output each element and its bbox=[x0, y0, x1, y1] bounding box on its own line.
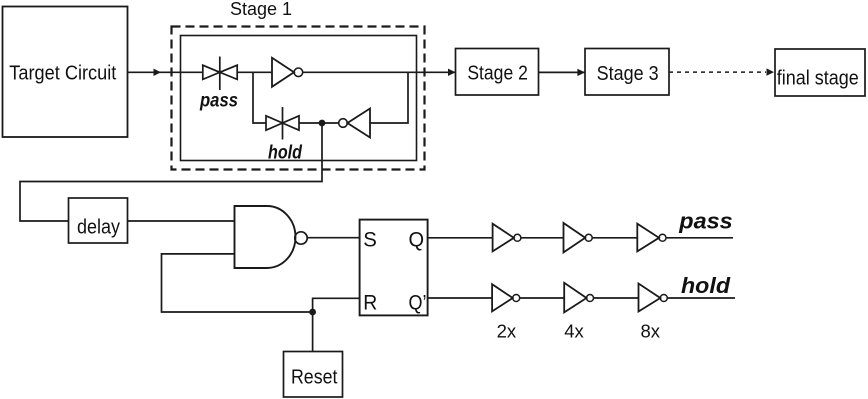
wire pass gate to inverter bbox=[237, 71, 272, 73]
transmission gate pass bbox=[203, 57, 237, 91]
box final stage bbox=[775, 49, 865, 96]
arrowhead into final stage bbox=[767, 68, 775, 75]
wire from Target Circuit into Stage 1 bbox=[127, 71, 203, 73]
svg-text:Stage 3: Stage 3 bbox=[597, 63, 659, 85]
svg-text:delay: delay bbox=[77, 217, 120, 239]
arrowhead on input wire bbox=[154, 69, 162, 76]
svg-text:R: R bbox=[363, 290, 377, 314]
wire delay to NAND input 1 bbox=[128, 220, 235, 222]
box Stage 2 bbox=[456, 49, 539, 96]
inverter U1 bbox=[272, 58, 303, 87]
wire X4 to X5 bbox=[520, 297, 565, 299]
dashed wire Stage 3 to final stage bbox=[669, 71, 766, 73]
inverter U2 (feedback, points left) bbox=[339, 109, 370, 138]
svg-text:pass: pass bbox=[199, 90, 238, 111]
inverter X5 (hold row, 4x) bbox=[564, 283, 593, 313]
wire node B to Reset bbox=[312, 312, 314, 351]
wire node A to inverter U2 bubble bbox=[322, 122, 339, 124]
wire X5 to X6 bbox=[594, 297, 639, 299]
wire Q to driver chain bbox=[428, 237, 493, 239]
svg-text:Q: Q bbox=[409, 228, 425, 252]
node B junction dot on R net bbox=[309, 309, 316, 316]
svg-text:Stage 1: Stage 1 bbox=[230, 0, 292, 19]
svg-text:hold: hold bbox=[681, 273, 731, 298]
svg-text:final stage: final stage bbox=[777, 68, 859, 90]
box Stage 3 bbox=[585, 49, 669, 96]
svg-text:Q’: Q’ bbox=[409, 290, 427, 314]
wire Q' to driver chain bbox=[428, 297, 493, 299]
wire hold gate to node A bbox=[299, 122, 322, 124]
SR latch U4 bbox=[360, 220, 428, 316]
wire Stage 2 to Stage 3 bbox=[539, 71, 585, 73]
svg-text:4x: 4x bbox=[564, 320, 584, 341]
box Reset bbox=[284, 352, 343, 398]
inverter X1 (pass row, 2x) bbox=[493, 224, 521, 252]
svg-text:Reset: Reset bbox=[291, 367, 338, 389]
box Target Circuit bbox=[3, 7, 128, 138]
svg-text:8x: 8x bbox=[641, 320, 661, 341]
wire X1 to X2 bbox=[521, 237, 564, 239]
wire NAND output to S bbox=[307, 237, 360, 239]
wire branch down to hold gate bbox=[253, 72, 266, 123]
wire U1 output to Stage 2 bbox=[303, 71, 455, 73]
feedback wire from main line to U2 input bbox=[370, 72, 408, 123]
svg-text:hold: hold bbox=[268, 143, 302, 164]
svg-text:Stage 2: Stage 2 bbox=[467, 63, 528, 85]
wire NAND input 2 from R net bbox=[162, 254, 313, 312]
svg-text:pass: pass bbox=[678, 209, 733, 234]
dashed outer box of Stage 1 bbox=[172, 27, 425, 170]
arrowhead into Stage 3 bbox=[577, 69, 585, 76]
box delay bbox=[69, 198, 128, 243]
svg-text:S: S bbox=[363, 228, 377, 252]
transmission gate hold bbox=[266, 107, 299, 140]
inverter X4 (hold row, 2x) bbox=[492, 284, 520, 311]
wire R input net bbox=[313, 298, 360, 312]
svg-text:2x: 2x bbox=[497, 320, 517, 341]
inverter X2 (pass row, 4x) bbox=[564, 223, 593, 252]
wire hold output bbox=[667, 297, 735, 299]
node A junction dot bbox=[319, 120, 326, 127]
inner box of Stage 1 bbox=[181, 36, 417, 161]
wire node A down and to delay bbox=[20, 123, 322, 221]
nand gate U3 bbox=[235, 206, 308, 268]
inverter X3 (pass row, 8x) bbox=[637, 224, 666, 252]
inverter X6 (hold row, 8x) bbox=[639, 284, 668, 312]
arrowhead into Stage 2 bbox=[448, 69, 456, 76]
svg-text:Target Circuit: Target Circuit bbox=[9, 63, 116, 85]
wire X2 to X3 bbox=[592, 237, 637, 239]
wire pass output bbox=[666, 237, 733, 239]
